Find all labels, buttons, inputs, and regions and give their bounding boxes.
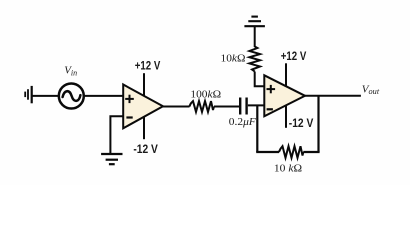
svg-text:-12 V: -12 V bbox=[289, 118, 314, 130]
svg-text:10 kΩ: 10 kΩ bbox=[274, 162, 302, 174]
svg-text:+12 V: +12 V bbox=[135, 60, 161, 72]
svg-text:100kΩ: 100kΩ bbox=[190, 89, 221, 101]
svg-text:Vout: Vout bbox=[362, 83, 380, 96]
svg-text:-12 V: -12 V bbox=[133, 144, 158, 156]
svg-text:+12 V: +12 V bbox=[281, 51, 307, 63]
svg-text:10kΩ: 10kΩ bbox=[221, 53, 246, 65]
svg-text:0.2μF: 0.2μF bbox=[229, 116, 256, 128]
svg-text:Vin: Vin bbox=[64, 65, 77, 78]
